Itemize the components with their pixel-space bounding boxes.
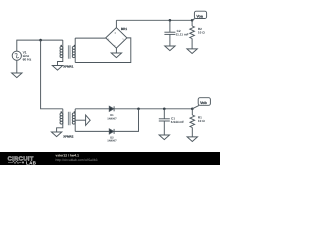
diode D1 <box>109 106 114 111</box>
svg-text:D2: D2 <box>110 136 114 139</box>
footer credit text <box>56 154 98 162</box>
svg-text:C2: C2 <box>177 29 181 32</box>
bridge rectifier BR1 <box>106 28 127 48</box>
label D2 value <box>107 136 117 142</box>
svg-text:LAB: LAB <box>26 161 36 165</box>
capacitor C1 <box>159 109 170 135</box>
CircuitLab logo <box>8 156 37 166</box>
wire top output rail <box>116 19 192 21</box>
wire D2 up to rail junction <box>114 109 138 132</box>
label D1 value <box>107 114 117 120</box>
primary bottom to ground <box>57 124 63 132</box>
resistor R2 <box>190 20 195 49</box>
secondary top lead <box>74 109 76 113</box>
label C2 value <box>176 29 189 36</box>
transformer XFMR1 <box>58 38 76 65</box>
resistor R1 <box>190 109 195 137</box>
secondary bottom lead <box>74 124 76 131</box>
svg-text:10 Ω: 10 Ω <box>198 31 205 34</box>
svg-text:-: - <box>115 43 116 46</box>
svg-text:vster12 / hw4.1: vster12 / hw4.1 <box>56 154 80 158</box>
svg-text:+: + <box>114 32 116 35</box>
polarity dots <box>60 111 62 113</box>
svg-text:sine: sine <box>23 54 30 58</box>
node junction dot R1 top <box>191 108 194 111</box>
node junction dot on top wire <box>39 39 42 42</box>
wire secondary bottom loop to bridge right <box>75 38 131 63</box>
svg-text:XFMR1: XFMR1 <box>63 65 73 68</box>
ground (R1) <box>187 137 197 142</box>
svg-text:XFMR2: XFMR2 <box>63 135 73 138</box>
ground (XFMR1) <box>52 66 62 71</box>
wire secondary top to bridge <box>75 37 106 39</box>
svg-text:10 Ω: 10 Ω <box>198 119 205 122</box>
secondary coil (center tapped) <box>74 113 76 124</box>
svg-text:~: ~ <box>108 38 110 41</box>
wire BR1 top to rail <box>115 20 117 27</box>
label C1 value <box>171 117 184 124</box>
svg-text:BR1: BR1 <box>121 27 127 30</box>
svg-text:D1: D1 <box>110 114 114 117</box>
label V1 value <box>23 51 32 62</box>
node junction dot C1 tap <box>163 108 166 111</box>
diode D2 <box>109 129 114 134</box>
voltage source V1 <box>12 51 21 60</box>
svg-text:Voa: Voa <box>196 14 203 18</box>
ground (XFMR2) <box>51 132 61 137</box>
svg-text:1N4007: 1N4007 <box>107 117 117 120</box>
wire V1 top to XFMR1 primary <box>17 40 63 51</box>
svg-text:~: ~ <box>122 38 124 41</box>
svg-text:60 Hz: 60 Hz <box>23 58 32 62</box>
ground (BR1) <box>111 53 121 58</box>
svg-text:V1: V1 <box>23 51 27 55</box>
net flag Voa <box>192 11 206 20</box>
ground (C1) <box>159 135 169 140</box>
net flag Vob <box>192 98 210 109</box>
primary coil <box>62 40 64 46</box>
core lines <box>67 112 69 125</box>
capacitor C2 <box>164 20 175 46</box>
node junction dot R2 top <box>191 19 194 22</box>
ground (R2) <box>187 49 197 54</box>
primary coil <box>62 109 64 113</box>
svg-text:11.11 mF: 11.11 mF <box>176 33 189 36</box>
wire BR1 bottom to ground <box>115 48 117 53</box>
transformer XFMR2 <box>57 109 86 132</box>
node junction dot C2 tap <box>169 19 172 22</box>
ground (C2) <box>165 46 175 51</box>
svg-text:Vob: Vob <box>200 101 207 105</box>
secondary coil <box>74 47 76 58</box>
core lines <box>67 45 69 58</box>
footer bar <box>0 152 220 165</box>
wire central vertical to bottom circuit <box>41 40 63 109</box>
svg-text:R1: R1 <box>198 116 202 119</box>
center tap wire <box>75 119 85 121</box>
svg-text:C1: C1 <box>171 117 175 120</box>
svg-text:http://circuitlab.com/c85a8b3: http://circuitlab.com/c85a8b3 <box>56 158 98 162</box>
ground (center tap, sideways) <box>86 115 91 125</box>
node junction dot D2 riser <box>137 108 140 111</box>
label R1 value <box>198 116 205 123</box>
ground (V1) <box>12 73 22 78</box>
primary bottom to ground <box>58 58 63 66</box>
wire secondary top to D1 <box>75 108 109 110</box>
wire secondary bottom to D2 <box>75 130 109 132</box>
svg-text:R2: R2 <box>198 27 202 30</box>
wire D1 to output rail <box>114 108 192 110</box>
label R2 value <box>198 27 205 34</box>
svg-text:6.944 mF: 6.944 mF <box>171 120 184 123</box>
polarity dots <box>60 45 62 47</box>
svg-text:1N4007: 1N4007 <box>107 139 117 142</box>
secondary leads <box>74 38 76 46</box>
